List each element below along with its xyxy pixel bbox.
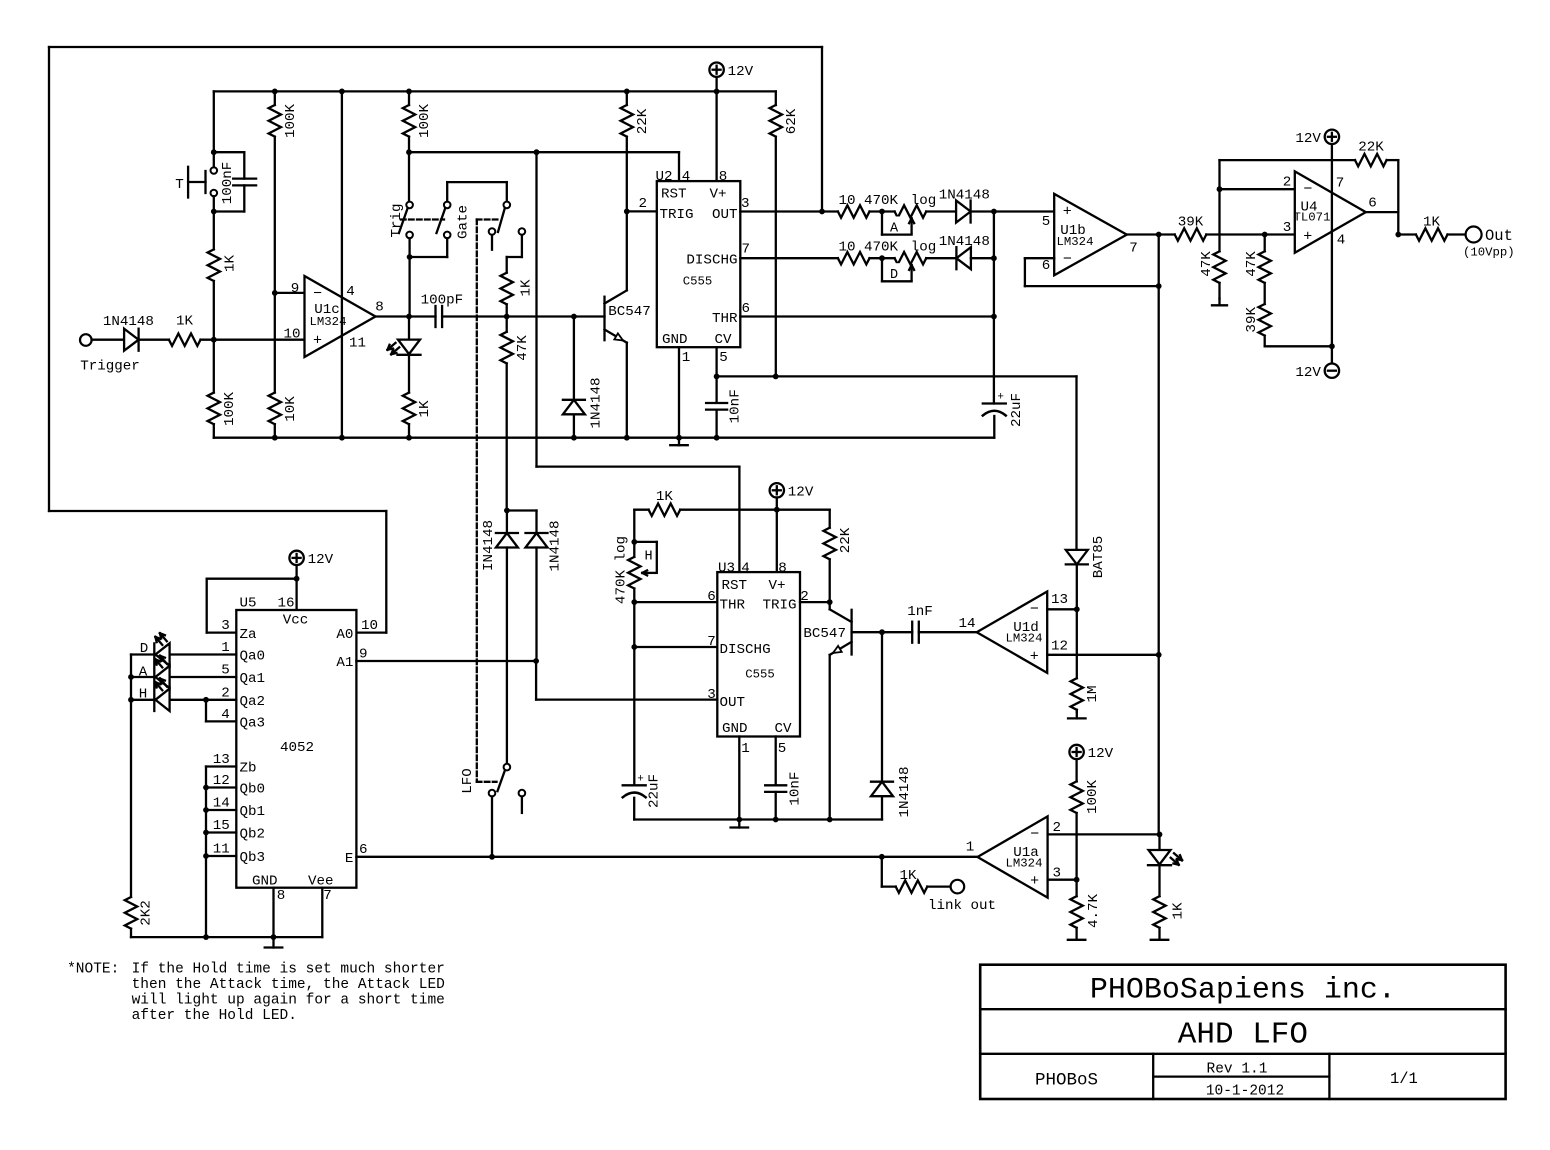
- wire +12V bus row: [214, 90, 776, 92]
- svg-text:39K: 39K: [1178, 214, 1204, 230]
- svg-text:2: 2: [1283, 175, 1292, 191]
- svg-text:1N4148: 1N4148: [939, 234, 990, 250]
- resistor 10 (A): [838, 193, 870, 218]
- wire Vcc row to Za: [207, 579, 297, 633]
- svg-text:Qb2: Qb2: [240, 827, 266, 843]
- resistor 47K (divider): [1244, 251, 1271, 283]
- svg-text:+: +: [313, 333, 322, 350]
- svg-text:1K: 1K: [1171, 902, 1187, 920]
- node switch bottom junction: [407, 254, 413, 260]
- switch Trig: [389, 202, 413, 239]
- wire S2 left throw stub: [491, 235, 493, 250]
- node T top junction: [211, 149, 217, 155]
- wire U5 GND pin 8: [272, 888, 274, 948]
- svg-text:Rev 1.1: Rev 1.1: [1207, 1061, 1268, 1077]
- wire U2 TRIG pin 2: [627, 210, 657, 212]
- svg-text:12V: 12V: [788, 485, 814, 501]
- svg-text:1: 1: [741, 741, 750, 757]
- wire LED H anode: [131, 699, 155, 701]
- svg-text:14: 14: [958, 616, 975, 632]
- svg-text:470K: 470K: [864, 240, 899, 256]
- svg-text:Qa1: Qa1: [240, 671, 266, 687]
- capacitor 10nF (U2 CV): [706, 389, 744, 423]
- wire mechanical link 2 (dashed): [477, 218, 500, 220]
- wire Qb1 link: [206, 809, 236, 811]
- wire 10nF leads: [715, 376, 717, 437]
- wire 100nF branch: [214, 152, 245, 211]
- svg-text:1K: 1K: [519, 279, 535, 297]
- resistor 1M: [1071, 678, 1102, 710]
- svg-text:+: +: [997, 392, 1004, 404]
- resistor 1K (gate switch): [501, 273, 535, 305]
- wire LED1 to 1K: [408, 355, 410, 438]
- wire pot H to THR: [633, 589, 635, 603]
- diode 1N4148 (D): [939, 234, 990, 269]
- svg-text:1K: 1K: [417, 400, 433, 418]
- svg-text:4: 4: [346, 284, 355, 300]
- pushbutton T: [175, 167, 217, 198]
- svg-text:U5: U5: [239, 596, 256, 612]
- wire ground bus row: [214, 437, 995, 439]
- svg-text:12V: 12V: [1088, 746, 1114, 762]
- svg-text:IN4148: IN4148: [481, 520, 497, 571]
- svg-text:U3: U3: [718, 561, 735, 577]
- svg-text:100K: 100K: [283, 103, 299, 138]
- svg-text:−: −: [1063, 251, 1072, 268]
- svg-text:log: log: [911, 240, 937, 256]
- node LED branch junction: [406, 314, 412, 320]
- wire U3 DISCHG pin 7: [634, 646, 717, 648]
- node link-out junction: [879, 854, 885, 860]
- svg-text:BC547: BC547: [803, 626, 846, 642]
- wire left border segment: [48, 47, 50, 511]
- power +12V (U4): [1295, 130, 1339, 147]
- svg-text:Trigger: Trigger: [80, 359, 140, 375]
- svg-text:4052: 4052: [280, 740, 314, 756]
- svg-text:THR: THR: [720, 597, 746, 613]
- svg-text:LM324: LM324: [1006, 632, 1043, 646]
- svg-text:AHD LFO: AHD LFO: [1178, 1018, 1308, 1053]
- svg-text:10: 10: [361, 618, 378, 634]
- power -12V (U4): [1295, 364, 1339, 381]
- node U4 minus junction: [1217, 186, 1223, 192]
- wire 47K gnd leads: [1218, 189, 1220, 298]
- svg-text:7: 7: [1129, 241, 1138, 257]
- diode 1N4148 (trigger input): [103, 314, 154, 351]
- node diode pair junction: [504, 508, 510, 514]
- wire diode D to sum: [971, 257, 994, 259]
- svg-text:LFO: LFO: [460, 768, 476, 794]
- svg-text:4: 4: [682, 169, 691, 185]
- LED (gate indicator): [388, 340, 421, 355]
- svg-text:1/1: 1/1: [1390, 1070, 1418, 1088]
- potentiometer 470K log (A): [882, 205, 926, 236]
- svg-text:+: +: [1303, 228, 1312, 245]
- op-amp U1c (LM324): [283, 276, 383, 357]
- wire U1a pin 2: [1048, 833, 1160, 835]
- wire T to 1K: [213, 196, 215, 211]
- transistor Q2 BC547: [803, 609, 851, 655]
- node T bottom junction: [211, 209, 217, 215]
- wire lower-left segment to A0: [49, 510, 386, 512]
- wire U2 CV pin 5: [715, 347, 717, 376]
- wire U2 RST pin 4 stub: [678, 152, 680, 181]
- resistor 22K (U3): [824, 527, 855, 559]
- node pin11 ground junction: [339, 435, 345, 441]
- svg-text:TRIG: TRIG: [762, 597, 796, 613]
- svg-text:8: 8: [375, 300, 384, 316]
- wire U4 output: [1366, 212, 1416, 234]
- svg-text:Gate: Gate: [456, 205, 472, 239]
- wire diode A to U1b: [971, 210, 1055, 212]
- svg-text:1K: 1K: [176, 314, 194, 330]
- svg-text:470K log: 470K log: [613, 536, 629, 604]
- svg-text:1nF: 1nF: [907, 604, 933, 620]
- ground (LED2): [1151, 928, 1169, 940]
- svg-text:6: 6: [1368, 196, 1377, 212]
- svg-text:log: log: [911, 193, 937, 209]
- wire CV row: [717, 375, 1077, 377]
- svg-text:7: 7: [742, 242, 751, 258]
- resistor 10 (D): [838, 240, 870, 265]
- svg-text:Za: Za: [240, 627, 258, 643]
- svg-text:12V: 12V: [1295, 365, 1321, 381]
- svg-text:4: 4: [1337, 233, 1346, 249]
- svg-text:1: 1: [966, 840, 975, 856]
- svg-text:A1: A1: [336, 655, 353, 671]
- node U2 TRIG junction: [624, 209, 630, 215]
- node 1N4148 junction: [571, 314, 577, 320]
- svg-text:47K: 47K: [515, 335, 531, 361]
- wire 47K to diode pair: [507, 511, 537, 534]
- wire U3 CV pin 5: [775, 737, 777, 820]
- wire 1nF to U1d out: [919, 631, 977, 633]
- wire Qa1 row: [170, 676, 237, 678]
- svg-text:BAT85: BAT85: [1091, 536, 1107, 579]
- wire Qb2 link: [206, 831, 236, 833]
- wire U4 pin 4 (V-): [1331, 232, 1333, 364]
- op-amp U1a (LM324): [966, 816, 1061, 897]
- resistor 100K (to ground): [208, 391, 238, 426]
- wire 39K to U4 pin 3: [1206, 233, 1295, 235]
- wire U1c output row: [376, 315, 436, 317]
- svg-text:OUT: OUT: [712, 207, 738, 223]
- node 10K ground junction: [272, 435, 278, 441]
- wire diode left leads: [506, 511, 508, 764]
- svg-text:10: 10: [838, 240, 855, 256]
- node U1b out junction: [1156, 232, 1162, 238]
- svg-text:6: 6: [359, 842, 368, 858]
- wire diode right to A1: [535, 548, 537, 662]
- wire U1b pin 6 feedback: [1025, 258, 1159, 286]
- wire lower ground bus: [634, 818, 882, 820]
- svg-text:11: 11: [349, 336, 366, 352]
- wire switch bottoms tie: [410, 238, 448, 257]
- node U2 OUT junction: [819, 209, 825, 215]
- title block frame: [980, 965, 1505, 1099]
- wire Qb3 link: [206, 855, 236, 857]
- svg-text:will light up again for a shor: will light up again for a short time: [132, 993, 445, 1009]
- svg-text:Qa2: Qa2: [240, 694, 266, 710]
- svg-text:E: E: [345, 851, 354, 867]
- wire pot A: [870, 210, 895, 212]
- node U2 gnd junction: [676, 435, 682, 441]
- resistor 1K (link out): [896, 868, 928, 893]
- resistor 62K: [770, 105, 801, 137]
- wire Qa2 row: [170, 699, 237, 701]
- wire U5 pin 16: [295, 579, 297, 610]
- svg-text:100K: 100K: [1085, 779, 1101, 814]
- node Qa2/Qa3 junction: [203, 697, 209, 703]
- wire A0 drop: [356, 511, 386, 633]
- node base/1nF junction: [879, 629, 885, 635]
- LED (attack indicator): [1148, 850, 1182, 865]
- wire 22uF to ground bus: [993, 416, 995, 438]
- wire 22uF to bus: [633, 798, 635, 820]
- wire mechanical link to LFO (dashed): [477, 781, 497, 783]
- node Qb2 junction: [203, 830, 209, 836]
- node pin4 divider junction: [1329, 343, 1335, 349]
- resistor 1K (trigger series): [169, 314, 201, 346]
- switch Gate: [437, 202, 472, 239]
- svg-text:1: 1: [682, 350, 691, 366]
- svg-text:3: 3: [741, 196, 750, 212]
- node THR sum junction: [991, 314, 997, 320]
- wire 100K leads: [1075, 780, 1077, 782]
- node Qb1 junction: [203, 807, 209, 813]
- wire U1b output: [1127, 233, 1175, 235]
- wire 22K2 leads: [829, 510, 831, 602]
- svg-text:8: 8: [719, 169, 728, 185]
- svg-text:10: 10: [838, 193, 855, 209]
- wire LED2 to 1K: [1158, 866, 1160, 897]
- node Vcc junction: [294, 576, 300, 582]
- node Qb0 junction: [203, 785, 209, 791]
- power +12V (U2): [709, 62, 753, 91]
- node 47K input junction: [1262, 232, 1268, 238]
- svg-text:100pF: 100pF: [421, 292, 464, 308]
- wire pot col THR-DISCHG: [633, 602, 635, 647]
- wire S2 right throw to 1K: [507, 235, 522, 273]
- ground (U4 minus): [1212, 299, 1227, 306]
- node Trig row junction: [406, 149, 412, 155]
- wire 1K lead: [213, 212, 215, 340]
- resistor 47K: [501, 332, 532, 364]
- svg-text:47K: 47K: [1199, 251, 1215, 277]
- wire Zb link: [206, 767, 236, 938]
- svg-text:3: 3: [221, 618, 230, 634]
- wire OUT drop from top line: [821, 47, 823, 212]
- svg-text:−: −: [1030, 601, 1039, 618]
- op-amp U4 (TL071): [1283, 171, 1377, 252]
- svg-text:OUT: OUT: [720, 695, 746, 711]
- wire U2 GND pin 1: [678, 347, 680, 438]
- wire U1c power rails pins 4/11: [341, 91, 343, 437]
- wire 1M leads: [1076, 609, 1078, 712]
- svg-text:+: +: [1030, 648, 1039, 665]
- wire top net from U2 OUT to U5 A0 (top segment): [49, 46, 822, 48]
- wire U1d pin 12: [1047, 654, 1159, 656]
- wire A1 row: [356, 660, 536, 662]
- diode BAT85: [1066, 536, 1107, 579]
- svg-text:(10Vpp): (10Vpp): [1463, 245, 1515, 259]
- svg-text:LM324: LM324: [1006, 857, 1043, 871]
- svg-text:2: 2: [639, 196, 648, 212]
- svg-text:7: 7: [323, 888, 332, 904]
- power +12V (U5): [289, 551, 333, 579]
- wire LED common column: [130, 655, 132, 898]
- wire Gate/S2 top link: [447, 182, 507, 201]
- resistor 100K (U1c minus pull-up): [269, 103, 299, 138]
- svg-text:CV: CV: [714, 332, 732, 348]
- node 10nF ground junction: [714, 435, 720, 441]
- svg-text:7: 7: [707, 634, 716, 650]
- wire U3 GND pin 1: [738, 737, 740, 820]
- svg-text:10-1-2012: 10-1-2012: [1206, 1083, 1284, 1099]
- node U3 TRIG junction: [827, 599, 833, 605]
- diode IN4148 (pair left): [481, 520, 518, 571]
- svg-text:DISCHG: DISCHG: [720, 642, 771, 658]
- wire 100nF column top: [213, 91, 215, 152]
- node U1c pin9 junction: [272, 290, 278, 296]
- svg-text:12V: 12V: [1295, 131, 1321, 147]
- svg-text:−: −: [313, 286, 322, 303]
- wire 47K/39K divider: [1265, 235, 1332, 347]
- wire 100K#1 leads: [274, 91, 276, 293]
- potentiometer 470K log (D): [882, 252, 926, 283]
- wire Trig top stub: [408, 152, 410, 201]
- wire U5 Vee pin 7: [321, 888, 323, 937]
- svg-text:C555: C555: [683, 274, 713, 288]
- node diode ground junction: [571, 435, 577, 441]
- node BAT85 junction: [1074, 606, 1080, 612]
- wire LFO left throw to E: [491, 797, 493, 857]
- potentiometer 470K log (H): [613, 536, 656, 604]
- svg-text:+: +: [1030, 873, 1039, 890]
- wire pot D: [870, 257, 895, 259]
- transistor Q1 BC547: [605, 290, 651, 342]
- resistor 10K: [269, 393, 299, 425]
- wire Qa3 link: [206, 700, 236, 722]
- svg-text:16: 16: [277, 596, 294, 612]
- wire 100pF to BC547 base: [442, 315, 604, 317]
- node 47K junction: [504, 314, 510, 320]
- node LED2 junction: [1157, 832, 1163, 838]
- svg-text:8: 8: [778, 561, 787, 577]
- wire Q2 emitter: [829, 655, 831, 820]
- svg-text:1N4148: 1N4148: [939, 187, 990, 203]
- wire U4 pin 2: [1220, 160, 1295, 189]
- wire 47K leads: [506, 317, 508, 511]
- node LED 1K ground junction: [406, 435, 412, 441]
- node pot H top junction: [631, 539, 637, 545]
- wire link out branch: [882, 857, 896, 887]
- svg-text:*NOTE:: *NOTE:: [67, 962, 119, 978]
- svg-text:6: 6: [707, 589, 716, 605]
- wire U2 V+ pin 8: [715, 91, 717, 181]
- svg-text:1K: 1K: [899, 868, 917, 884]
- svg-text:Qb0: Qb0: [240, 782, 266, 798]
- svg-text:BC547: BC547: [608, 304, 651, 320]
- wire BAT85 column: [1075, 376, 1078, 609]
- wire mechanical link (dashed): [401, 218, 444, 220]
- svg-text:5: 5: [719, 350, 728, 366]
- LED A: [155, 656, 169, 689]
- wire U2 OUT pin 3: [740, 210, 838, 212]
- note text: [67, 962, 445, 1024]
- wire U4 pin 7 (V+): [1331, 144, 1333, 232]
- op-amp U1b (LM324): [1042, 194, 1138, 275]
- wire trigger to diode: [92, 339, 125, 341]
- svg-text:CV: CV: [774, 721, 792, 737]
- node pin12 long-net junction: [1156, 652, 1162, 658]
- svg-text:Qb3: Qb3: [240, 850, 266, 866]
- wire Q2 base: [852, 631, 913, 633]
- svg-text:1K: 1K: [656, 489, 674, 505]
- wire sum column: [993, 212, 995, 404]
- svg-text:10K: 10K: [283, 396, 299, 422]
- svg-text:1K: 1K: [1423, 214, 1441, 230]
- power +12V (U1a): [1069, 745, 1113, 782]
- svg-text:−: −: [1303, 181, 1312, 198]
- wire column to U3 RST: [537, 152, 740, 572]
- svg-text:Zb: Zb: [240, 761, 257, 777]
- wire Qb0 link: [206, 786, 236, 788]
- capacitor 100pF: [421, 292, 464, 327]
- wire Q2 collector: [829, 602, 831, 609]
- wire to link out terminal: [927, 885, 950, 887]
- wire T top stub: [213, 152, 215, 167]
- svg-text:1N4148: 1N4148: [103, 314, 154, 330]
- node Qb3 junction: [203, 853, 209, 859]
- wire U2 DISCHG pin 7: [740, 257, 838, 259]
- node 10nF2 bus junction: [773, 817, 779, 823]
- svg-text:10nF: 10nF: [788, 772, 804, 806]
- svg-text:GND: GND: [662, 332, 688, 348]
- svg-text:TRIG: TRIG: [660, 207, 694, 223]
- wire LED1 anode: [408, 317, 410, 340]
- svg-text:A: A: [890, 221, 899, 236]
- svg-text:LM324: LM324: [1057, 235, 1094, 249]
- wire A1 to U3 OUT: [536, 661, 717, 700]
- wire long vertical net: [1158, 235, 1160, 835]
- node U3 12V junction: [774, 507, 780, 513]
- svg-text:2K2: 2K2: [139, 900, 155, 926]
- svg-text:12V: 12V: [308, 552, 334, 568]
- svg-text:4: 4: [741, 561, 750, 577]
- ground (1M): [1068, 712, 1086, 718]
- ground (4.7K): [1068, 928, 1086, 940]
- wire 2K2 to gnd bus: [131, 929, 322, 938]
- node Q2 emitter bus junction: [827, 817, 833, 823]
- wire row to RST U2: [409, 151, 679, 153]
- wire U4 feedback top: [1220, 160, 1399, 234]
- node DISCHG junction: [631, 644, 637, 650]
- LED D: [155, 633, 169, 666]
- wire 22K leads: [626, 91, 628, 211]
- resistor 1K (U3): [649, 489, 681, 516]
- resistor 1K (trigger divider): [208, 249, 239, 281]
- node U4 out junction: [1395, 232, 1401, 238]
- wire 1K row to pot H: [634, 510, 829, 542]
- node CV junction: [714, 374, 720, 380]
- svg-text:then the Attack time, the Atta: then the Attack time, the Attack LED: [132, 977, 445, 993]
- terminal Out: [1463, 227, 1515, 260]
- svg-text:+: +: [637, 774, 644, 786]
- svg-text:PHOBoSapiens inc.: PHOBoSapiens inc.: [1090, 974, 1396, 1008]
- svg-text:100K: 100K: [222, 391, 238, 426]
- svg-text:THR: THR: [712, 311, 738, 327]
